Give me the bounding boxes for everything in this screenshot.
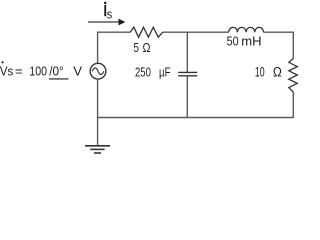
label Is <box>104 2 112 22</box>
wire top-middle (resistor to inductor) <box>163 31 229 33</box>
svg-text:Vs: Vs <box>0 64 14 79</box>
wire bottom <box>97 117 294 119</box>
value label 250 uF <box>135 65 171 80</box>
svg-text:/0°: /0° <box>49 64 64 79</box>
svg-text:V: V <box>73 64 82 79</box>
svg-text:µF: µF <box>159 65 171 80</box>
value label 5 ohm <box>134 40 151 55</box>
svg-text:50: 50 <box>227 34 239 49</box>
ground <box>85 146 110 153</box>
resistor R2 vertical zigzag <box>289 59 298 93</box>
wire source bottom to ground junction <box>97 79 99 145</box>
wire top-left (source top to resistor) <box>98 32 131 63</box>
svg-text:=: = <box>15 64 23 79</box>
inductor L1 <box>229 27 264 32</box>
wire capacitor branch lower <box>186 76 188 118</box>
svg-text:10: 10 <box>255 65 265 80</box>
value label 50 mH <box>227 34 262 49</box>
svg-text:Ω: Ω <box>273 65 282 80</box>
source label Vs = 100 angle 0 V <box>0 61 82 79</box>
wire right-bottom (resistor to bottom wire) <box>292 92 294 118</box>
value label 10 ohm <box>255 65 282 80</box>
svg-text:250: 250 <box>135 65 151 80</box>
wire top-right (inductor to right corner) <box>264 32 294 58</box>
svg-text:Ω: Ω <box>143 40 151 55</box>
voltage source U1 (AC) <box>90 63 106 79</box>
svg-text:mH: mH <box>241 34 261 49</box>
svg-text:5: 5 <box>134 40 140 55</box>
svg-text:s: s <box>107 8 112 22</box>
resistor R1 zigzag <box>130 27 163 37</box>
capacitor C1 plates <box>178 72 197 75</box>
wire capacitor branch upper <box>186 32 188 72</box>
svg-text:100: 100 <box>29 64 47 79</box>
current arrow Is <box>88 19 125 26</box>
